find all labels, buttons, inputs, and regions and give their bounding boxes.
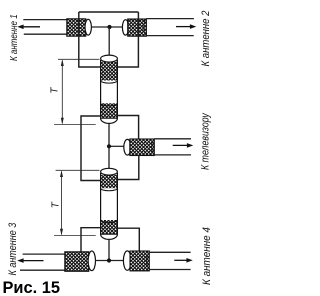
braid bus wire (top) <box>79 11 139 13</box>
jacket cut arc <box>64 254 67 270</box>
jacket cut arc <box>152 139 155 155</box>
center conductor from junction C <box>109 260 123 262</box>
jacket top edge <box>154 138 191 140</box>
coax1 bottom cap <box>101 118 118 123</box>
coax2 side walls <box>101 173 118 235</box>
braid (hatched) <box>65 252 89 271</box>
center conductor wire to junction <box>91 26 109 28</box>
cable end ellipse <box>122 20 128 35</box>
svg-text:К телевизору: К телевизору <box>200 112 212 170</box>
coax2 bottom cap <box>101 234 118 239</box>
braid (hatched) <box>130 251 149 271</box>
jacket top edge <box>23 253 65 255</box>
jacket top edge <box>149 251 190 253</box>
tick bottom <box>54 124 96 126</box>
cable end ellipse <box>85 19 91 35</box>
coax1 top end ellipse <box>101 55 118 62</box>
arrow down <box>61 118 64 125</box>
dim line <box>61 61 63 124</box>
center conductor from junction A down <box>108 27 110 56</box>
svg-text:К антенне 4: К антенне 4 <box>202 227 214 285</box>
arrow to antenna 2 <box>176 26 192 28</box>
braid wire: coax1 bottom right to TV braid <box>117 116 138 147</box>
jacket bottom edge <box>154 154 191 156</box>
wire jacket top edge <box>23 19 67 21</box>
coax2 seam jacket bottom <box>101 220 118 223</box>
coax1 upper braid <box>101 62 118 81</box>
svg-text:Т: Т <box>51 201 62 208</box>
arrow to antenna 4 <box>174 259 188 261</box>
center conductor wire from junction <box>110 26 123 28</box>
coax1 seam jacket bottom <box>101 103 118 106</box>
braid (hatched) <box>130 139 155 156</box>
coax1 seam jacket top <box>101 81 118 84</box>
braid wire: coax2 bottom left riser to ant3 braid <box>81 228 101 259</box>
cable end ellipse <box>124 139 131 155</box>
coax2 top end ellipse <box>101 168 118 175</box>
braid wire: ant1 braid down to coax1 top <box>79 12 101 67</box>
jacket bottom edge <box>20 269 65 271</box>
junction dot B <box>107 144 111 148</box>
tick top <box>58 58 100 60</box>
arrow to antenna 1 <box>22 26 40 28</box>
braid (hatched) <box>67 19 86 36</box>
junction dot C <box>107 258 111 262</box>
arrow up <box>60 170 63 177</box>
arrow down <box>60 229 63 236</box>
tick bottom <box>54 235 96 237</box>
arrow to antenna 3 <box>22 260 44 262</box>
junction dot A (ant1+ant2 centers) <box>107 25 111 29</box>
jacket bottom edge <box>149 269 190 271</box>
coax2 upper braid <box>101 175 118 188</box>
braid wire: TV braid down to coax2 top <box>117 156 138 180</box>
center conductor from junction B to cable <box>109 145 124 147</box>
cable end ellipse <box>123 251 131 270</box>
svg-text:К антенне 1: К антенне 1 <box>8 14 19 61</box>
center conductor from junction B down <box>108 146 110 169</box>
svg-text:К антенне 3: К антенне 3 <box>7 222 19 275</box>
braid wire: coax2 bottom right riser to ant4 braid <box>117 228 139 258</box>
dim line <box>61 172 63 235</box>
tick top <box>56 169 100 171</box>
center conductor to junction C <box>95 260 109 262</box>
jacket cut arc <box>147 252 150 269</box>
coax2 lower braid <box>101 220 118 235</box>
coax1 lower braid <box>101 103 118 118</box>
braid wire: ant2 braid down to coax1 top <box>117 12 138 67</box>
arrow to TV <box>173 144 189 146</box>
wire jacket bottom edge <box>146 35 193 37</box>
coax1 body white <box>101 61 118 119</box>
jacket cut arc <box>144 19 147 36</box>
wire jacket top edge <box>146 18 194 20</box>
jacket cut arc <box>66 20 69 35</box>
braid (hatched) <box>128 19 147 36</box>
braid wire: coax1 bottom to left riser down to coax2 top <box>81 116 101 181</box>
wire jacket bottom edge <box>24 33 67 35</box>
cable end ellipse <box>88 251 95 271</box>
svg-text:Т: Т <box>50 87 61 94</box>
coax1 side walls <box>101 60 118 119</box>
arrow up <box>61 59 64 66</box>
svg-text:К антенне 2: К антенне 2 <box>201 10 213 66</box>
center conductor out of coax2 bottom <box>108 239 110 261</box>
coax2 seam jacket top <box>101 188 118 191</box>
coax2 body white <box>101 174 118 235</box>
center conductor out of coax1 bottom <box>108 124 110 147</box>
svg-text:Рис. 15: Рис. 15 <box>3 279 60 296</box>
